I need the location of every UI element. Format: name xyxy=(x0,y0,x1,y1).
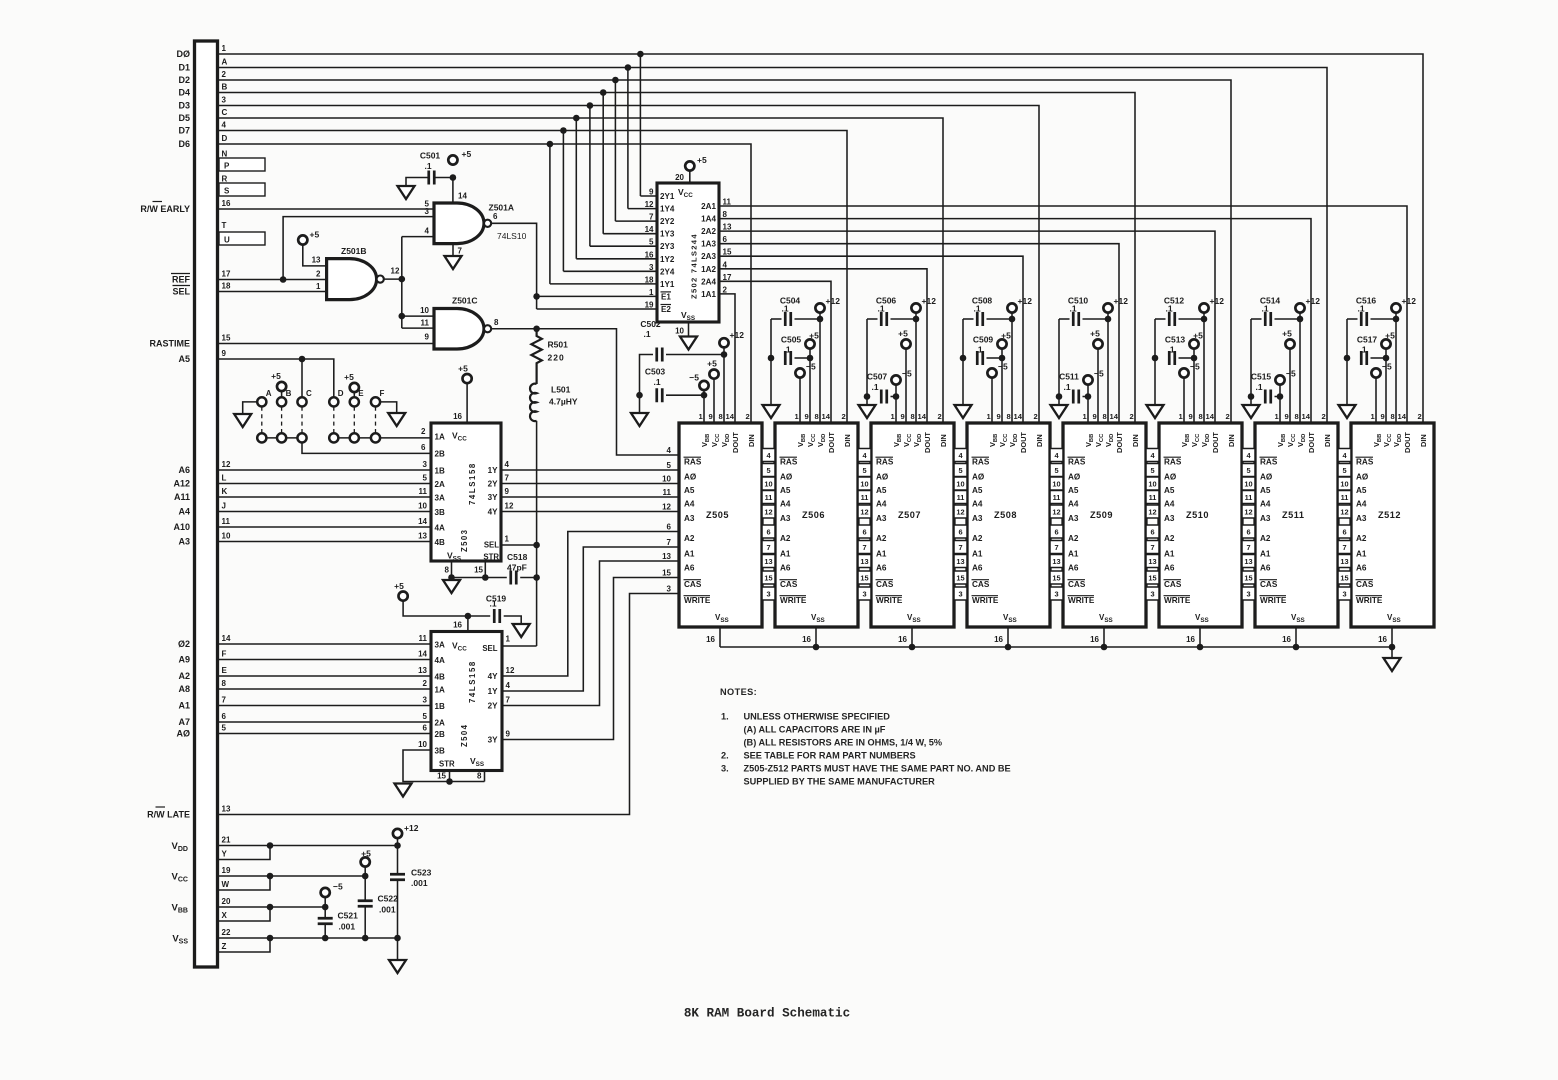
svg-text:C509: C509 xyxy=(973,335,994,345)
bus pin box 13 between Z509 and Z510 xyxy=(1146,555,1159,568)
bus pin box 12 between Z508 and Z509 xyxy=(1050,505,1063,518)
svg-text:S: S xyxy=(224,186,230,195)
wire Z504 STR down xyxy=(449,771,451,782)
svg-text:DOUT: DOUT xyxy=(827,432,836,453)
wire gnd vertical Z506 xyxy=(770,319,772,405)
wire A4 bus line xyxy=(218,511,432,513)
wire to Z501C pin11 xyxy=(402,327,434,329)
svg-text:14: 14 xyxy=(222,634,231,643)
svg-text:Z505-Z512 PARTS MUST HAVE THE: Z505-Z512 PARTS MUST HAVE THE SAME PART … xyxy=(744,764,1011,774)
svg-text:9: 9 xyxy=(1189,412,1193,421)
overline Z510 CAS xyxy=(1164,579,1182,581)
svg-text:DOUT: DOUT xyxy=(1307,432,1316,453)
svg-text:E2: E2 xyxy=(661,305,671,314)
ground jumper right xyxy=(388,413,405,426)
wire C522 to VSS xyxy=(364,907,366,938)
svg-text:R/W LATE: R/W LATE xyxy=(147,810,190,820)
svg-text:DØ: DØ xyxy=(177,49,191,59)
ground power section xyxy=(389,960,406,973)
wire DOUT line Z502 1A2 to Z507 xyxy=(719,269,927,423)
wire C508 lead left xyxy=(963,318,974,320)
wire D3 branch down to Z502 xyxy=(589,106,591,247)
wire VCC Z504 up xyxy=(467,616,469,632)
bus pin box 15 between Z508 and Z509 xyxy=(1050,571,1063,584)
svg-text:AØ: AØ xyxy=(684,473,697,482)
svg-text:7: 7 xyxy=(958,543,962,552)
terminal +5 for Z501B xyxy=(298,235,307,244)
wire D6 branch down to Z502 xyxy=(549,144,551,284)
svg-text:(B) ALL RESISTORS ARE IN OHMS,: (B) ALL RESISTORS ARE IN OHMS, 1/4 W, 5% xyxy=(744,738,943,748)
junction C511 gnd node xyxy=(1056,393,1063,400)
svg-text:1B: 1B xyxy=(435,467,446,476)
wire D5 into Z502 pin xyxy=(576,258,657,260)
jumper pad C top xyxy=(297,397,306,406)
svg-text:R/W EARLY: R/W EARLY xyxy=(140,204,190,214)
capacitor C516 .1 xyxy=(1361,312,1367,326)
svg-text:(A) ALL CAPACITORS ARE IN µF: (A) ALL CAPACITORS ARE IN µF xyxy=(744,725,886,735)
svg-text:C: C xyxy=(306,389,312,398)
wire C509 lead right xyxy=(987,357,1003,359)
svg-text:6: 6 xyxy=(723,235,728,244)
svg-text:11: 11 xyxy=(1341,493,1349,502)
svg-text:12: 12 xyxy=(1148,508,1156,517)
svg-text:3: 3 xyxy=(667,585,672,594)
terminal +5 power xyxy=(361,857,370,866)
junction VCC pair xyxy=(267,873,274,880)
svg-text:15: 15 xyxy=(1052,574,1060,583)
svg-text:STR: STR xyxy=(439,760,455,769)
svg-text:1: 1 xyxy=(316,282,321,291)
svg-text:A5: A5 xyxy=(1356,486,1367,495)
svg-text:A6: A6 xyxy=(1260,564,1271,573)
svg-text:4Y: 4Y xyxy=(488,508,499,517)
svg-text:3: 3 xyxy=(1246,590,1250,599)
jumper dashed link D xyxy=(333,407,335,433)
svg-text:Z: Z xyxy=(222,942,227,951)
wire VBB line xyxy=(218,906,326,908)
overline Z512 CAS xyxy=(1356,579,1374,581)
wire to Z501C pin10 xyxy=(402,315,434,317)
svg-text:15: 15 xyxy=(764,574,772,583)
wire D1 branch down to Z502 xyxy=(627,68,629,209)
svg-text:2Y1: 2Y1 xyxy=(660,192,675,201)
svg-text:A2: A2 xyxy=(1068,534,1079,543)
svg-text:13: 13 xyxy=(1148,557,1156,566)
svg-text:13: 13 xyxy=(1340,557,1348,566)
bus pin box 4 between Z509 and Z510 xyxy=(1146,449,1159,462)
svg-text:K: K xyxy=(222,487,228,496)
svg-text:DIN: DIN xyxy=(1131,434,1140,447)
terminal +5 Z507 xyxy=(901,339,910,348)
svg-text:9: 9 xyxy=(649,188,654,197)
capacitor C517 .1 xyxy=(1361,351,1367,365)
terminal +5 jumper E xyxy=(350,383,359,392)
svg-text:12: 12 xyxy=(1052,508,1060,517)
wire Z504 VSS down xyxy=(484,771,486,782)
wire C517 lead right xyxy=(1371,357,1387,359)
ground Z502 VSS xyxy=(680,337,697,350)
svg-text:15: 15 xyxy=(662,569,671,578)
svg-text:WRITE: WRITE xyxy=(684,596,711,605)
bus pin box 3 between Z506 and Z507 xyxy=(858,587,871,600)
svg-text:20: 20 xyxy=(222,897,231,906)
svg-text:4.7µHY: 4.7µHY xyxy=(549,397,578,407)
svg-text:A12: A12 xyxy=(173,479,190,489)
svg-text:STR: STR xyxy=(483,553,499,562)
svg-text:18: 18 xyxy=(645,275,654,284)
svg-text:CAS: CAS xyxy=(876,580,894,589)
svg-text:UNLESS OTHERWISE SPECIFIED: UNLESS OTHERWISE SPECIFIED xyxy=(744,712,891,722)
svg-text:12: 12 xyxy=(1244,508,1252,517)
svg-text:3: 3 xyxy=(862,590,866,599)
jumper pad C bottom xyxy=(297,433,306,442)
wire Z504 3Y to CAS row xyxy=(502,578,679,740)
svg-text:+12: +12 xyxy=(1402,296,1417,306)
svg-text:A1: A1 xyxy=(972,550,983,559)
svg-text:2A: 2A xyxy=(435,719,446,728)
svg-text:RAS: RAS xyxy=(1068,458,1086,467)
bus pin box 15 between Z511 and Z512 xyxy=(1338,571,1351,584)
svg-text:A4: A4 xyxy=(1164,500,1175,509)
junction Z504 STR rail xyxy=(446,778,453,785)
svg-text:3: 3 xyxy=(423,696,428,705)
svg-text:A4: A4 xyxy=(1068,500,1079,509)
svg-text:.1: .1 xyxy=(781,304,788,314)
bus pin box 6 between Z510 and Z511 xyxy=(1242,525,1255,538)
svg-text:−5: −5 xyxy=(689,373,699,383)
wire Z501B output xyxy=(384,278,402,280)
junction C516 VDD node xyxy=(1393,316,1400,323)
gate Z501C (74LS10 NAND) xyxy=(434,309,484,350)
wire data line D3 from bus to RAM DIN xyxy=(218,106,1040,424)
junction VSS pair xyxy=(267,935,274,942)
svg-text:8: 8 xyxy=(1103,412,1107,421)
svg-text:WRITE: WRITE xyxy=(1260,596,1287,605)
svg-text:11: 11 xyxy=(222,517,231,526)
wire A3 bus line xyxy=(218,541,432,543)
wire Z512 VCC pin9 up xyxy=(1385,349,1387,423)
svg-text:A4: A4 xyxy=(972,500,983,509)
svg-text:DOUT: DOUT xyxy=(1403,432,1412,453)
junction D4 branch xyxy=(600,89,607,96)
svg-text:A3: A3 xyxy=(684,514,695,523)
svg-text:A2: A2 xyxy=(1260,534,1271,543)
svg-text:Z507: Z507 xyxy=(898,510,921,520)
wire Z503 SEL out xyxy=(501,544,537,546)
ground C519 xyxy=(513,624,530,637)
wire into Z504 SEL xyxy=(502,645,537,647)
junction C504 VDD node xyxy=(817,316,824,323)
svg-text:16: 16 xyxy=(802,635,811,644)
svg-text:.1: .1 xyxy=(973,304,980,314)
wire Z501B output vertical xyxy=(401,237,403,329)
wire D3 into Z502 pin xyxy=(590,245,657,247)
terminal +5 Z512 xyxy=(1381,339,1390,348)
svg-text:12: 12 xyxy=(1340,508,1348,517)
gate Z501A (74LS10 NAND) xyxy=(434,203,484,244)
svg-text:−5: −5 xyxy=(1382,362,1392,372)
svg-text:1A2: 1A2 xyxy=(701,265,716,274)
svg-text:.1: .1 xyxy=(1063,382,1070,392)
svg-text:A5: A5 xyxy=(780,486,791,495)
svg-text:13: 13 xyxy=(860,557,868,566)
wire C518 to SEL vertical xyxy=(520,577,536,579)
svg-text:.1: .1 xyxy=(871,382,878,392)
svg-text:A1: A1 xyxy=(684,550,695,559)
svg-text:14: 14 xyxy=(1302,412,1311,421)
svg-text:+5: +5 xyxy=(344,372,354,382)
terminal +12 C516 xyxy=(1391,303,1400,312)
svg-text:RAS: RAS xyxy=(1260,458,1278,467)
svg-text:2B: 2B xyxy=(435,730,446,739)
wire VDD stub Y xyxy=(218,846,271,860)
svg-text:A3: A3 xyxy=(876,514,887,523)
svg-text:RAS: RAS xyxy=(780,458,798,467)
svg-text:+5: +5 xyxy=(310,230,320,240)
junction VSS rail Z507 xyxy=(909,644,916,651)
wire C519 to ground xyxy=(504,616,522,624)
wire C515 lead right xyxy=(1275,396,1281,398)
wire Z511 VCC pin9 up xyxy=(1289,349,1291,423)
svg-text:−5: −5 xyxy=(1094,369,1104,379)
svg-text:2: 2 xyxy=(1322,412,1326,421)
wire Z504 4Y to A2 row xyxy=(502,532,679,677)
jumper pad A bottom xyxy=(257,433,266,442)
svg-text:2: 2 xyxy=(842,412,846,421)
wire data line D5 from bus to RAM DIN xyxy=(218,118,944,423)
wire AØ bus line xyxy=(218,733,432,735)
capacitor C522 .001 xyxy=(358,901,373,907)
bus pin box 4 between Z508 and Z509 xyxy=(1050,449,1063,462)
wire C521 to VSS xyxy=(324,925,326,938)
svg-text:E: E xyxy=(222,666,228,675)
wire Z503 4Y to A3 row xyxy=(501,511,679,513)
svg-text:A6: A6 xyxy=(1164,564,1175,573)
svg-text:SEE TABLE FOR RAM PART NUMBERS: SEE TABLE FOR RAM PART NUMBERS xyxy=(744,751,916,761)
svg-text:C: C xyxy=(222,108,228,117)
svg-text:2: 2 xyxy=(723,285,728,294)
svg-text:10: 10 xyxy=(675,327,684,336)
bus pin box 5 between Z508 and Z509 xyxy=(1050,464,1063,477)
junction VSS rail Z512 xyxy=(1389,644,1396,651)
wire Z505 VSS pin16 down xyxy=(719,627,721,647)
overline Z512 RAS xyxy=(1356,456,1374,458)
wire +5 down to Z501A pin14 xyxy=(452,178,454,204)
ground RAM VSS rail xyxy=(1384,658,1401,671)
junction C519 node xyxy=(465,613,472,620)
svg-text:+12: +12 xyxy=(730,330,745,340)
junction VSS rail Z506 xyxy=(813,644,820,651)
mux Z504 74LS158 xyxy=(431,632,502,771)
svg-text:5: 5 xyxy=(423,474,428,483)
svg-text:WRITE: WRITE xyxy=(876,596,903,605)
wire A12 bus line xyxy=(218,483,432,485)
svg-text:D1: D1 xyxy=(178,63,190,73)
svg-text:9: 9 xyxy=(901,412,905,421)
svg-text:A6: A6 xyxy=(1068,564,1079,573)
svg-text:14: 14 xyxy=(1110,412,1119,421)
svg-text:15: 15 xyxy=(222,334,231,343)
svg-text:CAS: CAS xyxy=(684,580,702,589)
capacitor C523 .001 xyxy=(390,874,405,880)
svg-text:12: 12 xyxy=(645,200,654,209)
svg-text:AØ: AØ xyxy=(177,729,191,739)
svg-text:1A: 1A xyxy=(435,686,446,695)
wire data line D4 from bus to RAM DIN xyxy=(218,93,1136,424)
wire Z510 VSS pin16 down xyxy=(1199,627,1201,647)
wire Ø2 bus line xyxy=(218,643,432,645)
svg-text:7: 7 xyxy=(222,696,227,705)
svg-text:WRITE: WRITE xyxy=(972,596,999,605)
svg-text:6: 6 xyxy=(1054,528,1058,537)
svg-text:16: 16 xyxy=(706,635,715,644)
svg-text:7: 7 xyxy=(667,538,672,547)
svg-text:19: 19 xyxy=(222,866,231,875)
junction C503 VBB node xyxy=(701,392,708,399)
svg-text:SEL: SEL xyxy=(172,287,190,297)
svg-text:1A3: 1A3 xyxy=(701,240,716,249)
wire jumper bottom row D-F to Z503 1A xyxy=(334,437,431,439)
wire C516 lead right xyxy=(1371,318,1397,320)
wire Z511 VBB pin1 up xyxy=(1279,385,1281,423)
svg-text:Z512: Z512 xyxy=(1378,510,1401,520)
svg-text:13: 13 xyxy=(956,557,964,566)
svg-text:+5: +5 xyxy=(1090,329,1100,339)
bus pin box 13 between Z508 and Z509 xyxy=(1050,555,1063,568)
bus pin box 5 between Z505 and Z506 xyxy=(762,464,775,477)
wire DØ branch down to Z502 xyxy=(639,54,641,196)
junction C505 gnd node xyxy=(768,355,775,362)
svg-text:10: 10 xyxy=(418,502,427,511)
svg-text:.1: .1 xyxy=(1359,345,1366,355)
terminal -5 Z509 xyxy=(1083,375,1092,384)
svg-text:A1: A1 xyxy=(1260,550,1271,559)
svg-text:A: A xyxy=(266,389,272,398)
wire E1 line xyxy=(537,295,657,297)
svg-text:+12: +12 xyxy=(826,296,841,306)
svg-text:17: 17 xyxy=(222,270,231,279)
terminal -5 chip1 xyxy=(699,381,708,390)
svg-text:12: 12 xyxy=(391,267,400,276)
svg-text:15: 15 xyxy=(437,772,446,781)
svg-text:D: D xyxy=(338,389,344,398)
svg-text:7: 7 xyxy=(1246,543,1250,552)
svg-text:2A3: 2A3 xyxy=(701,252,716,261)
wire gnd vertical Z509 xyxy=(1058,319,1060,405)
wire C503 right lead xyxy=(666,394,704,396)
wire Z505 VBB pin1 up xyxy=(703,390,705,423)
svg-text:.1: .1 xyxy=(1357,304,1364,314)
wire DOUT line Z502 2A2 to Z510 xyxy=(719,231,1215,423)
stub box P xyxy=(219,158,265,171)
svg-text:14: 14 xyxy=(726,412,735,421)
svg-text:2: 2 xyxy=(1130,412,1134,421)
junction VSS rail Z509 xyxy=(1101,644,1108,651)
svg-text:DIN: DIN xyxy=(1419,434,1428,447)
wire +5 to Z503 VCC xyxy=(466,383,468,423)
junction C511 VBB node xyxy=(1085,393,1092,400)
svg-text:DIN: DIN xyxy=(939,434,948,447)
junction VBB pair xyxy=(267,904,274,911)
svg-text:R501: R501 xyxy=(548,340,569,350)
junction C509 VCC node xyxy=(999,355,1006,362)
wire REF to Z501B pin2 xyxy=(218,279,327,281)
jumper pad A top xyxy=(257,397,266,406)
wire jumper C to Z503 2B xyxy=(302,443,431,454)
wire data line D6 from bus to RAM DIN xyxy=(218,144,752,423)
bus pin box 11 between Z511 and Z512 xyxy=(1338,491,1351,504)
junction DØ branch xyxy=(637,51,644,58)
capacitor C507 .1 xyxy=(881,390,887,404)
wire +5 to C519 node xyxy=(403,601,468,616)
svg-text:5: 5 xyxy=(667,461,672,470)
wire C518 ground rail xyxy=(452,577,507,579)
wire C523 to VSS xyxy=(397,881,399,938)
overline Z505 RAS xyxy=(684,456,702,458)
svg-text:+12: +12 xyxy=(1306,296,1321,306)
svg-text:16: 16 xyxy=(222,199,231,208)
bus pin box 11 between Z506 and Z507 xyxy=(858,491,871,504)
wire Z509 VDD pin8 up xyxy=(1107,313,1109,423)
svg-text:+12: +12 xyxy=(404,823,419,833)
wire Z503 VSS down xyxy=(451,561,453,578)
svg-text:1: 1 xyxy=(222,44,227,53)
wire D7 into Z502 pin xyxy=(563,270,657,272)
svg-text:2: 2 xyxy=(1034,412,1038,421)
jumper pad B bottom xyxy=(277,433,286,442)
RAM chip Z507 (4K dynamic RAM) xyxy=(871,423,954,627)
wire Z504 3B to ground rail xyxy=(403,750,485,782)
svg-text:DIN: DIN xyxy=(747,434,756,447)
wire Z506 VSS pin16 down xyxy=(815,627,817,647)
svg-text:1Y4: 1Y4 xyxy=(660,205,675,214)
svg-text:12: 12 xyxy=(764,508,772,517)
junction C508 VDD node xyxy=(1009,316,1016,323)
svg-text:2.: 2. xyxy=(721,751,729,761)
capacitor C515 .1 xyxy=(1265,390,1271,404)
svg-text:C511: C511 xyxy=(1059,372,1079,382)
svg-text:CAS: CAS xyxy=(1164,580,1182,589)
wire C501 left lead to ground xyxy=(406,178,429,187)
svg-text:D4: D4 xyxy=(178,88,190,98)
terminal +5 Z511 xyxy=(1285,339,1294,348)
bus pin box 7 between Z510 and Z511 xyxy=(1242,541,1255,554)
wire +5 down xyxy=(364,867,366,876)
svg-text:RAS: RAS xyxy=(1356,458,1374,467)
bus pin box 15 between Z509 and Z510 xyxy=(1146,571,1159,584)
svg-text:C505: C505 xyxy=(781,335,802,345)
bus pin box 7 between Z506 and Z507 xyxy=(858,541,871,554)
svg-text:6: 6 xyxy=(1246,528,1250,537)
overline Z508 WRITE xyxy=(972,595,999,597)
bus pin box 5 between Z509 and Z510 xyxy=(1146,464,1159,477)
wire C514 lead right xyxy=(1275,318,1301,320)
svg-text:15: 15 xyxy=(1148,574,1156,583)
svg-text:14: 14 xyxy=(458,192,467,201)
wire VSS rail to ground xyxy=(1391,647,1393,658)
svg-text:A2: A2 xyxy=(178,671,190,681)
svg-text:9: 9 xyxy=(805,412,809,421)
wire A10 bus line xyxy=(218,526,432,528)
svg-text:1Y: 1Y xyxy=(488,687,499,696)
svg-text:2: 2 xyxy=(421,427,426,436)
wire gnd vertical Z511 xyxy=(1250,319,1252,405)
svg-text:12: 12 xyxy=(505,502,514,511)
svg-text:A5: A5 xyxy=(178,354,190,364)
svg-text:A4: A4 xyxy=(780,500,791,509)
junction C509 gnd node xyxy=(960,355,967,362)
bus pin box 12 between Z511 and Z512 xyxy=(1338,505,1351,518)
